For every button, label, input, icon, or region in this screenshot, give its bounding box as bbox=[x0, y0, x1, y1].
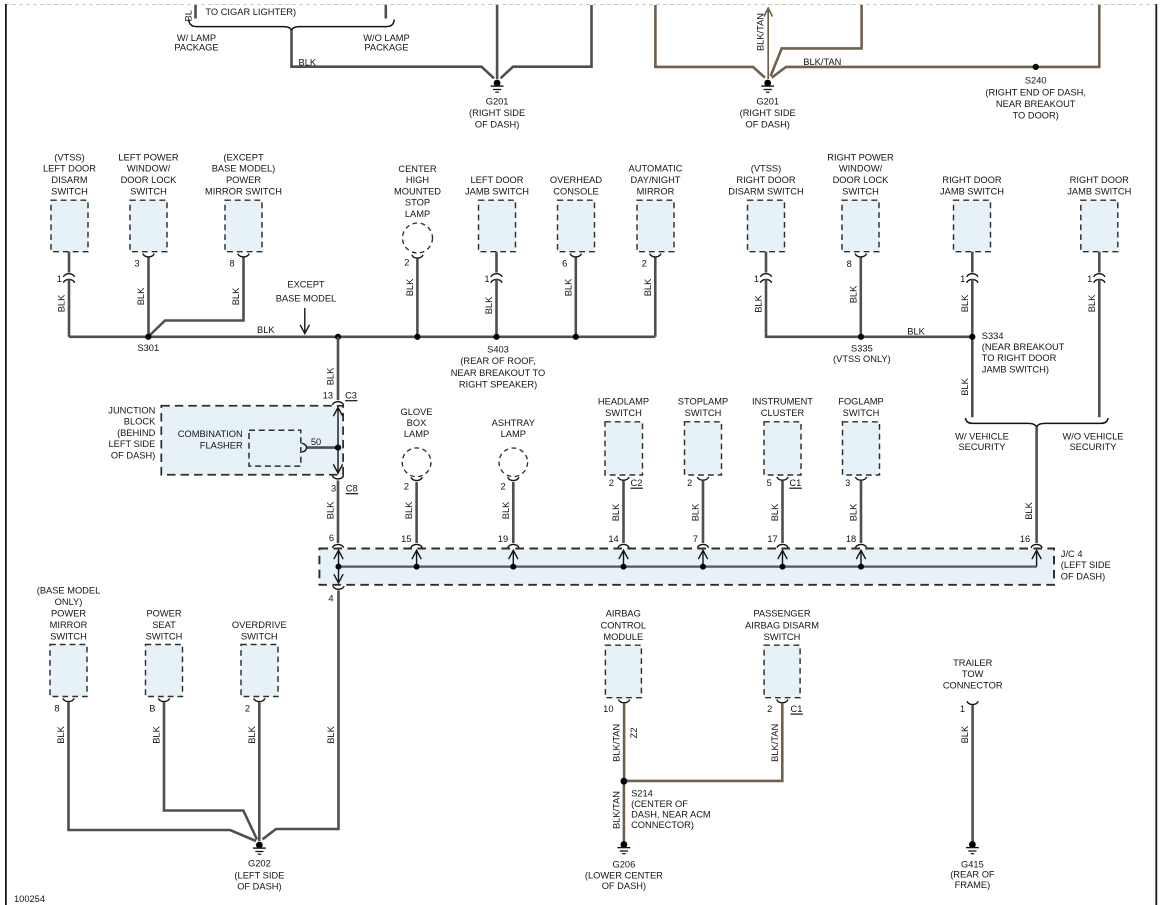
wire pin 2 ashtray lamp to J/C4 pin 19 bbox=[508, 477, 519, 480]
svg-text:(RIGHT SIDE: (RIGHT SIDE bbox=[469, 108, 525, 118]
page top dashed border bbox=[5, 4, 1158, 6]
svg-text:MODULE: MODULE bbox=[603, 632, 643, 642]
svg-text:DASH, NEAR ACM: DASH, NEAR ACM bbox=[631, 810, 711, 820]
page left border bbox=[5, 4, 7, 905]
splice S214 dot bbox=[621, 778, 628, 785]
svg-text:2: 2 bbox=[404, 482, 409, 492]
svg-text:SWITCH: SWITCH bbox=[241, 631, 278, 641]
svg-text:FRAME): FRAME) bbox=[955, 880, 991, 890]
svg-text:(VTSS): (VTSS) bbox=[751, 164, 781, 174]
svg-text:RIGHT DOOR: RIGHT DOOR bbox=[736, 175, 796, 185]
svg-text:CONTROL: CONTROL bbox=[601, 621, 646, 631]
wire pin 1 trailer tow connector to G415 bbox=[967, 701, 978, 704]
svg-text:C3: C3 bbox=[345, 391, 357, 401]
svg-text:3: 3 bbox=[134, 259, 139, 269]
svg-text:AIRBAG: AIRBAG bbox=[606, 609, 641, 619]
junction dot flasher to ground path bbox=[335, 445, 341, 451]
svg-text:BLK: BLK bbox=[907, 326, 925, 336]
wire pin 1 right disarm switch to S335 bbox=[765, 252, 768, 273]
wire pin 2 auto mirror to bus bbox=[650, 254, 661, 257]
wire ground bus left bbox=[69, 335, 655, 338]
svg-text:BLK: BLK bbox=[326, 501, 336, 519]
svg-text:8: 8 bbox=[229, 259, 234, 269]
svg-text:4: 4 bbox=[328, 594, 333, 604]
ground G202 bbox=[256, 842, 263, 849]
svg-text:BLK: BLK bbox=[257, 325, 275, 335]
svg-text:LEFT DOOR: LEFT DOOR bbox=[43, 164, 96, 174]
svg-text:1: 1 bbox=[484, 274, 489, 284]
svg-text:13: 13 bbox=[323, 391, 333, 401]
svg-text:LAMP: LAMP bbox=[501, 429, 526, 439]
wire J/C4 pin 4 to G202 bbox=[263, 590, 339, 839]
svg-text:BLK/TAN: BLK/TAN bbox=[756, 13, 766, 51]
svg-text:OVERDRIVE: OVERDRIVE bbox=[232, 620, 287, 630]
wire east run to off-page with S240 bbox=[772, 5, 1100, 78]
svg-text:BLK: BLK bbox=[848, 285, 858, 303]
svg-text:S403: S403 bbox=[487, 345, 509, 355]
svg-text:3: 3 bbox=[845, 478, 850, 488]
wire pin 8 right window switch to S335 bbox=[855, 254, 866, 257]
svg-text:2: 2 bbox=[687, 478, 692, 488]
svg-text:19: 19 bbox=[498, 534, 508, 544]
splice S403 bbox=[493, 334, 499, 340]
wire brace to J/C4 pin 16 bbox=[1035, 428, 1038, 543]
svg-text:G202: G202 bbox=[248, 859, 271, 869]
wire from top into G201 right - left branch bbox=[655, 5, 765, 78]
svg-text:DISARM SWITCH: DISARM SWITCH bbox=[728, 186, 803, 196]
svg-text:TO RIGHT DOOR: TO RIGHT DOOR bbox=[982, 353, 1057, 363]
wire junction block to J/C4 pin 6 bbox=[337, 480, 340, 543]
splice S240 bbox=[1033, 64, 1039, 70]
svg-text:RIGHT DOOR: RIGHT DOOR bbox=[942, 175, 1002, 185]
svg-text:SWITCH: SWITCH bbox=[51, 186, 88, 196]
svg-text:Z2: Z2 bbox=[629, 727, 639, 738]
svg-text:JUNCTION: JUNCTION bbox=[108, 406, 155, 416]
svg-text:BLK: BLK bbox=[1087, 294, 1097, 312]
svg-text:18: 18 bbox=[846, 534, 856, 544]
svg-text:BASE MODEL: BASE MODEL bbox=[276, 293, 336, 303]
svg-text:TO CIGAR LIGHTER): TO CIGAR LIGHTER) bbox=[205, 7, 296, 17]
svg-text:ASHTRAY: ASHTRAY bbox=[492, 418, 535, 428]
svg-text:PASSENGER: PASSENGER bbox=[753, 609, 810, 619]
svg-text:COMBINATION: COMBINATION bbox=[178, 429, 243, 439]
svg-text:G206: G206 bbox=[613, 859, 636, 869]
svg-text:AUTOMATIC: AUTOMATIC bbox=[629, 164, 683, 174]
svg-text:POWER: POWER bbox=[51, 608, 86, 618]
svg-text:BLK: BLK bbox=[691, 503, 701, 521]
svg-text:POWER: POWER bbox=[146, 608, 181, 618]
svg-text:BOX: BOX bbox=[407, 418, 427, 428]
svg-text:DOOR LOCK: DOOR LOCK bbox=[121, 175, 178, 185]
svg-text:(LEFT SIDE: (LEFT SIDE bbox=[234, 871, 284, 881]
wire pin 10 airbag control module to S214 bbox=[619, 700, 630, 703]
svg-text:MIRROR SWITCH: MIRROR SWITCH bbox=[205, 186, 282, 196]
svg-text:BLK: BLK bbox=[960, 294, 970, 312]
svg-text:W/O LAMP: W/O LAMP bbox=[363, 33, 410, 43]
svg-text:BASE MODEL): BASE MODEL) bbox=[212, 164, 276, 174]
wire pin 8 base power mirror switch to G202 bbox=[63, 698, 74, 701]
svg-text:BLK/TAN: BLK/TAN bbox=[770, 724, 780, 762]
svg-text:EXCEPT: EXCEPT bbox=[287, 280, 325, 290]
ground G201 right bbox=[764, 80, 771, 87]
ground G206 bbox=[621, 841, 628, 848]
svg-text:LAMP: LAMP bbox=[405, 209, 430, 219]
svg-text:MOUNTED: MOUNTED bbox=[394, 186, 441, 196]
svg-text:BLK: BLK bbox=[960, 725, 970, 743]
J/C4 pin 4 connector cup bbox=[333, 586, 344, 589]
svg-text:SWITCH: SWITCH bbox=[843, 408, 880, 418]
svg-text:(LOWER CENTER: (LOWER CENTER bbox=[585, 870, 663, 880]
svg-text:RIGHT SPEAKER): RIGHT SPEAKER) bbox=[459, 379, 537, 389]
wire pin 8 power mirror switch to S301 bbox=[238, 254, 249, 257]
svg-text:2: 2 bbox=[642, 259, 647, 269]
splice S334 bbox=[969, 334, 975, 340]
svg-text:BLK: BLK bbox=[770, 503, 780, 521]
svg-text:S240: S240 bbox=[1025, 76, 1047, 86]
wire pin 2 stop lamp to bus bbox=[412, 255, 423, 258]
svg-text:SWITCH: SWITCH bbox=[685, 408, 722, 418]
junction block pin 3 C8 bbox=[332, 476, 343, 479]
svg-text:SWITCH: SWITCH bbox=[130, 186, 167, 196]
svg-text:C1: C1 bbox=[791, 704, 803, 714]
svg-text:HIGH: HIGH bbox=[406, 175, 429, 185]
svg-text:(REAR OF: (REAR OF bbox=[950, 870, 995, 880]
svg-text:BLK/TAN: BLK/TAN bbox=[612, 724, 622, 762]
svg-text:2: 2 bbox=[404, 258, 409, 268]
wire pin 3 window switch to S301 bbox=[143, 254, 154, 257]
svg-text:14: 14 bbox=[608, 534, 618, 544]
svg-text:1: 1 bbox=[754, 274, 759, 284]
svg-text:POWER: POWER bbox=[226, 175, 261, 185]
svg-text:W/ VEHICLE: W/ VEHICLE bbox=[955, 431, 1009, 441]
svg-text:2: 2 bbox=[767, 704, 772, 714]
svg-text:BLK: BLK bbox=[231, 287, 241, 305]
wire upper-right branch into G201 right bbox=[771, 5, 862, 76]
svg-text:10: 10 bbox=[603, 704, 613, 714]
wire pin 3 foglamp switch to J/C4 pin 18 bbox=[855, 477, 866, 480]
svg-text:STOP: STOP bbox=[405, 198, 430, 208]
svg-text:DOOR LOCK: DOOR LOCK bbox=[833, 175, 890, 185]
svg-text:W/O VEHICLE: W/O VEHICLE bbox=[1063, 431, 1124, 441]
svg-text:BLK: BLK bbox=[960, 377, 970, 395]
svg-text:SEAT: SEAT bbox=[152, 620, 176, 630]
svg-text:CENTER: CENTER bbox=[398, 164, 437, 174]
svg-text:(RIGHT END OF DASH,: (RIGHT END OF DASH, bbox=[985, 88, 1086, 98]
svg-text:SECURITY: SECURITY bbox=[958, 442, 1005, 452]
svg-text:1: 1 bbox=[57, 274, 62, 284]
svg-text:HEADLAMP: HEADLAMP bbox=[598, 396, 649, 406]
wire pin B power seat switch to G202 bbox=[158, 698, 169, 701]
wire pin 2 glove box lamp to J/C4 pin 15 bbox=[411, 477, 422, 480]
svg-text:1: 1 bbox=[960, 704, 965, 714]
junction connector J/C 4 (left side of dash) bbox=[319, 549, 1054, 585]
splice S301 bbox=[145, 334, 151, 340]
combination flasher inner box bbox=[249, 430, 301, 466]
svg-text:SECURITY: SECURITY bbox=[1069, 442, 1116, 452]
svg-text:15: 15 bbox=[401, 534, 411, 544]
svg-text:(EXCEPT: (EXCEPT bbox=[223, 152, 264, 162]
svg-text:JAMB SWITCH): JAMB SWITCH) bbox=[982, 364, 1049, 374]
wire pin 6 overhead console to bus bbox=[570, 254, 581, 257]
svg-text:6: 6 bbox=[562, 259, 567, 269]
svg-text:BLK: BLK bbox=[56, 725, 66, 743]
J/C4 pin 4 exit arrow bbox=[338, 567, 340, 583]
svg-text:6: 6 bbox=[329, 533, 334, 543]
wire S214 to G206 bbox=[623, 781, 626, 844]
svg-text:(LEFT SIDE: (LEFT SIDE bbox=[1061, 560, 1111, 570]
svg-text:OF DASH): OF DASH) bbox=[475, 120, 519, 130]
wire S335 to S334 bbox=[861, 335, 972, 338]
svg-text:SWITCH: SWITCH bbox=[764, 632, 801, 642]
J/C4 internal ground bus bbox=[339, 565, 1037, 567]
svg-text:C1: C1 bbox=[789, 478, 801, 488]
svg-text:CONNECTOR: CONNECTOR bbox=[943, 681, 1003, 691]
wire pin 2 C1 passenger airbag disarm switch to S214 bbox=[777, 700, 788, 703]
svg-text:C8: C8 bbox=[346, 484, 358, 494]
svg-text:FOGLAMP: FOGLAMP bbox=[838, 396, 883, 406]
wire pin 2 C2 headlamp switch to J/C4 pin 14 bbox=[618, 477, 629, 480]
underbrace w/ lamp - w/o lamp bbox=[189, 20, 394, 32]
svg-text:17: 17 bbox=[767, 534, 777, 544]
svg-text:SWITCH: SWITCH bbox=[605, 408, 642, 418]
svg-text:DISARM: DISARM bbox=[51, 175, 87, 185]
svg-text:2: 2 bbox=[501, 482, 506, 492]
svg-text:BLK: BLK bbox=[754, 294, 764, 312]
splice dot stop lamp bbox=[414, 334, 420, 340]
svg-text:2: 2 bbox=[245, 704, 250, 714]
svg-text:BLK: BLK bbox=[405, 278, 415, 296]
svg-text:(REAR OF ROOF,: (REAR OF ROOF, bbox=[460, 356, 535, 366]
svg-text:MIRROR: MIRROR bbox=[50, 620, 88, 630]
svg-text:(VTSS): (VTSS) bbox=[54, 152, 84, 162]
svg-text:NEAR BREAKOUT TO: NEAR BREAKOUT TO bbox=[451, 368, 546, 378]
svg-text:S335: S335 bbox=[851, 344, 873, 354]
svg-text:BLK: BLK bbox=[57, 294, 67, 312]
svg-text:8: 8 bbox=[54, 704, 59, 714]
svg-text:OF DASH): OF DASH) bbox=[111, 450, 155, 460]
wire stub from above (w/ lamp package) bbox=[194, 5, 197, 19]
wire pin 1 left door jamb switch to S403 bbox=[495, 252, 498, 273]
svg-text:BLK: BLK bbox=[404, 501, 414, 519]
svg-text:MIRROR: MIRROR bbox=[637, 186, 675, 196]
svg-text:G201: G201 bbox=[486, 97, 509, 107]
svg-text:J/C 4: J/C 4 bbox=[1061, 549, 1083, 559]
svg-text:BLK: BLK bbox=[326, 367, 336, 385]
svg-text:BLOCK: BLOCK bbox=[124, 417, 156, 427]
svg-text:BLK: BLK bbox=[484, 296, 494, 314]
svg-text:WINDOW/: WINDOW/ bbox=[839, 164, 883, 174]
svg-text:TO DOOR): TO DOOR) bbox=[1013, 110, 1059, 120]
svg-text:RIGHT POWER: RIGHT POWER bbox=[827, 152, 894, 162]
svg-text:WINDOW/: WINDOW/ bbox=[127, 164, 171, 174]
svg-text:(VTSS ONLY): (VTSS ONLY) bbox=[833, 354, 891, 364]
svg-text:1: 1 bbox=[1087, 274, 1092, 284]
svg-text:PACKAGE: PACKAGE bbox=[174, 43, 218, 53]
svg-text:BLK: BLK bbox=[326, 725, 336, 743]
svg-text:BLK: BLK bbox=[563, 278, 573, 296]
svg-text:LEFT POWER: LEFT POWER bbox=[118, 152, 179, 162]
svg-text:7: 7 bbox=[693, 534, 698, 544]
svg-text:BLK: BLK bbox=[1024, 501, 1034, 519]
svg-text:G415: G415 bbox=[961, 859, 984, 869]
svg-text:(RIGHT SIDE: (RIGHT SIDE bbox=[740, 108, 796, 118]
svg-text:(BASE MODEL: (BASE MODEL bbox=[37, 585, 101, 595]
svg-text:JAMB SWITCH: JAMB SWITCH bbox=[1067, 186, 1131, 196]
svg-text:LEFT SIDE: LEFT SIDE bbox=[108, 439, 155, 449]
junction dot to junction block bbox=[335, 334, 341, 340]
svg-text:NEAR BREAKOUT: NEAR BREAKOUT bbox=[996, 99, 1076, 109]
svg-text:BLK/TAN: BLK/TAN bbox=[803, 57, 841, 67]
svg-text:S301: S301 bbox=[137, 343, 159, 353]
svg-text:TRAILER: TRAILER bbox=[953, 658, 993, 668]
svg-text:SWITCH: SWITCH bbox=[146, 631, 183, 641]
svg-text:CONSOLE: CONSOLE bbox=[553, 186, 598, 196]
svg-text:INSTRUMENT: INSTRUMENT bbox=[752, 396, 813, 406]
wire center with off-page arrow into G201 right bbox=[767, 9, 769, 79]
svg-text:BLK: BLK bbox=[299, 57, 317, 67]
ground G415 bbox=[969, 841, 976, 848]
junction block internal wire with arrows bbox=[337, 408, 339, 448]
wire pin 5 C1 instrument cluster to J/C4 pin 17 bbox=[777, 477, 788, 480]
svg-text:50: 50 bbox=[311, 437, 321, 447]
svg-text:JAMB SWITCH: JAMB SWITCH bbox=[940, 186, 1004, 196]
svg-text:CLUSTER: CLUSTER bbox=[761, 408, 805, 418]
flasher pin 50 arc and wire bbox=[302, 443, 307, 452]
svg-text:SWITCH: SWITCH bbox=[842, 186, 879, 196]
svg-text:(NEAR BREAKOUT: (NEAR BREAKOUT bbox=[982, 342, 1065, 352]
underbrace vehicle security options bbox=[966, 418, 1109, 429]
wire stub from above (w/o lamp package) bbox=[384, 5, 387, 19]
svg-text:(BEHIND: (BEHIND bbox=[117, 428, 156, 438]
svg-text:AIRBAG DISARM: AIRBAG DISARM bbox=[745, 621, 819, 631]
svg-text:2: 2 bbox=[609, 478, 614, 488]
svg-text:OF DASH): OF DASH) bbox=[602, 881, 646, 891]
svg-text:GLOVE: GLOVE bbox=[400, 407, 432, 417]
svg-text:DAY/NIGHT: DAY/NIGHT bbox=[631, 175, 681, 185]
svg-text:G201: G201 bbox=[756, 97, 779, 107]
wire pin 1 right door jamb switch through S334 bbox=[971, 252, 974, 273]
svg-text:C2: C2 bbox=[631, 478, 643, 488]
svg-text:OF DASH): OF DASH) bbox=[1061, 572, 1105, 582]
svg-text:(CENTER OF: (CENTER OF bbox=[631, 799, 688, 809]
svg-text:JAMB SWITCH: JAMB SWITCH bbox=[465, 186, 529, 196]
wire pin 2 stoplamp switch to J/C4 pin 7 bbox=[697, 477, 708, 480]
svg-text:BLK: BLK bbox=[643, 278, 653, 296]
wire bus to junction block pin 13 bbox=[337, 337, 340, 400]
J/C4 internal arrows and junction dots bbox=[338, 550, 340, 566]
svg-text:16: 16 bbox=[1020, 534, 1030, 544]
svg-text:OF DASH): OF DASH) bbox=[745, 120, 789, 130]
page right border bbox=[1155, 4, 1157, 905]
svg-text:CONNECTOR): CONNECTOR) bbox=[631, 820, 694, 830]
svg-text:BLK: BLK bbox=[849, 503, 859, 521]
svg-text:OF DASH): OF DASH) bbox=[237, 882, 281, 892]
splice S214 bbox=[621, 778, 627, 784]
wire from top into G201 left bbox=[496, 5, 499, 79]
svg-text:5: 5 bbox=[767, 478, 772, 488]
svg-text:LEFT DOOR: LEFT DOOR bbox=[470, 175, 523, 185]
svg-text:W/ LAMP: W/ LAMP bbox=[177, 33, 216, 43]
wire pin 2 overdrive switch to G202 bbox=[254, 698, 265, 701]
svg-text:ONLY): ONLY) bbox=[55, 597, 83, 607]
svg-text:BLK: BLK bbox=[152, 725, 162, 743]
wire from top right into G201 left bbox=[501, 5, 592, 78]
svg-text:LAMP: LAMP bbox=[404, 429, 429, 439]
svg-text:TOW: TOW bbox=[962, 669, 984, 679]
svg-text:SWITCH: SWITCH bbox=[50, 631, 87, 641]
svg-text:STOPLAMP: STOPLAMP bbox=[678, 396, 728, 406]
svg-text:S214: S214 bbox=[631, 789, 653, 799]
ground G201 left bbox=[494, 80, 501, 87]
svg-text:BLK/TAN: BLK/TAN bbox=[612, 791, 622, 829]
svg-text:BLK: BLK bbox=[611, 503, 621, 521]
svg-text:S334: S334 bbox=[982, 331, 1004, 341]
svg-text:8: 8 bbox=[847, 259, 852, 269]
splice S335 bbox=[858, 334, 864, 340]
wire brace to G201 left bbox=[292, 31, 495, 79]
svg-text:PACKAGE: PACKAGE bbox=[364, 43, 408, 53]
svg-text:100254: 100254 bbox=[14, 894, 45, 904]
svg-text:BLK: BLK bbox=[501, 501, 511, 519]
svg-text:BLK: BLK bbox=[247, 725, 257, 743]
svg-text:OVERHEAD: OVERHEAD bbox=[550, 175, 602, 185]
svg-text:BLK: BLK bbox=[136, 287, 146, 305]
svg-text:B: B bbox=[149, 704, 155, 714]
wire pin 1 disarm switch to S301 bbox=[68, 252, 71, 273]
wire pin 1 right door jamb switch 2 to brace bbox=[1098, 252, 1101, 273]
svg-text:3: 3 bbox=[331, 484, 336, 494]
svg-text:FLASHER: FLASHER bbox=[200, 440, 243, 450]
svg-text:RIGHT DOOR: RIGHT DOOR bbox=[1070, 175, 1130, 185]
svg-text:1: 1 bbox=[960, 274, 965, 284]
splice dot overhead console bbox=[573, 334, 579, 340]
